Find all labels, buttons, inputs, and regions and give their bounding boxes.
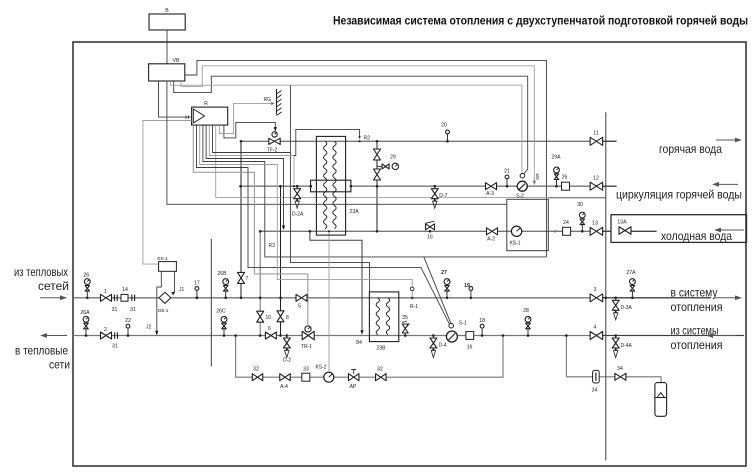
svg-text:TR-1: TR-1 [301, 344, 312, 350]
wire d7 R to S-1 slant 2 [197, 125, 450, 325]
wire R2 sensor to controller [294, 129, 360, 155]
control valve TR-1 [302, 331, 314, 340]
valve 32 b [376, 374, 387, 381]
svg-text:29A: 29A [551, 155, 561, 161]
sensor 20 [446, 140, 449, 143]
svg-text:5: 5 [298, 304, 301, 310]
svg-text:D-2: D-2 [283, 358, 291, 364]
wire w2 VB to SR sensor arrow [181, 66, 534, 182]
svg-text:холодная вода: холодная вода [661, 229, 732, 243]
pipe: valve 8 branch x280.5 [280, 186, 282, 335]
svg-text:24: 24 [563, 220, 569, 226]
svg-text:A-3: A-3 [486, 191, 494, 197]
svg-text:10: 10 [266, 315, 272, 321]
valve 13A [619, 227, 631, 235]
sensor 21 [506, 185, 509, 188]
pipe: return black segment right of valve 4 [603, 335, 744, 337]
wire w1 VB to S-1 line [185, 60, 547, 257]
gauge 30 [581, 230, 584, 233]
svg-text:KS-1: KS-1 [509, 241, 520, 247]
pipe: 23A bottom outlet to return (node 84) [310, 231, 362, 331]
boundary divider line x211 [210, 239, 212, 366]
svg-text:D-4A: D-4A [621, 343, 633, 349]
pipe: right riser x605.8 [605, 112, 607, 460]
svg-text:в систему: в систему [671, 286, 718, 300]
flange pair 31 c [114, 332, 116, 339]
svg-text:2: 2 [104, 327, 107, 333]
flow arrow circulation [718, 183, 738, 185]
pipe: circulation line left segment [241, 185, 311, 187]
pipe: cold black segment inside box [631, 230, 656, 232]
valve A-2 [487, 228, 498, 235]
heat exchanger 23B coil 2 [386, 298, 389, 335]
svg-text:17: 17 [194, 280, 200, 286]
pipe: hot water black segment right of valve 11 [603, 140, 617, 142]
svg-text:VB: VB [173, 58, 180, 64]
filter 34 [593, 370, 600, 383]
svg-text:29: 29 [390, 155, 396, 161]
valve 34 [615, 373, 626, 380]
svg-text:Db-1: Db-1 [158, 308, 169, 314]
svg-text:13A: 13A [617, 220, 627, 226]
svg-text:R-1: R-1 [410, 304, 418, 310]
flow arrow cold water [720, 229, 744, 231]
wire R to TF-2 actuator [224, 122, 275, 137]
wire KS-2 sensing line [328, 231, 330, 371]
heat exchanger 23A coil 2 [333, 141, 336, 228]
pipe: heating supply line [73, 297, 711, 299]
sensor R-1 [411, 297, 414, 300]
valve 1 [101, 294, 112, 301]
wire d8 R to sensor R-1 [200, 125, 413, 287]
svg-text:S-2: S-2 [516, 194, 524, 200]
valve 2 [101, 332, 112, 339]
sensor 18 [481, 334, 484, 337]
gauge 27A [631, 297, 634, 300]
svg-text:23B: 23B [376, 346, 386, 352]
svg-text:B: B [165, 8, 169, 14]
wire branch VB-w4 down to controller R [289, 85, 291, 152]
svg-text:J1: J1 [179, 287, 185, 293]
pump S-1 [451, 334, 454, 337]
pipe: circulation black segment right of valve 12 [603, 185, 617, 187]
drain D-4A [614, 334, 617, 337]
svg-text:SR: SR [535, 173, 541, 180]
svg-text:сети: сети [49, 360, 70, 372]
heat exchanger 23A middle header [311, 180, 351, 192]
elevator Db-1 diamond [159, 292, 171, 303]
device box 26 on circulation [562, 182, 570, 190]
device box 24 [563, 227, 571, 235]
svg-text:D-3A: D-3A [621, 305, 633, 311]
flow arrow into system [40, 297, 61, 299]
svg-text:16: 16 [467, 345, 473, 351]
svg-text:31: 31 [112, 344, 118, 350]
flow arrow hot water [716, 139, 736, 141]
svg-text:27A: 27A [626, 270, 636, 276]
valve 10 [257, 311, 264, 322]
svg-text:84: 84 [356, 340, 362, 346]
valve 6 on return [265, 332, 276, 339]
device box 33 [302, 373, 310, 381]
pipe: heating return line [73, 335, 744, 337]
valve 4 [590, 332, 603, 340]
wire VB down to KS-1 box (y=204) [167, 81, 507, 204]
safety valve 35 [404, 334, 407, 337]
expansion tank [655, 383, 667, 417]
drain D-3A [614, 297, 617, 300]
flange pair 31 b [131, 295, 133, 302]
svg-text:26: 26 [83, 272, 89, 278]
wire w4 VB to pump S-2 straight [170, 81, 522, 173]
valve A-3 [486, 183, 497, 190]
svg-text:23A: 23A [350, 209, 360, 215]
svg-text:сетей: сетей [38, 281, 69, 293]
svg-text:27: 27 [441, 270, 447, 276]
svg-text:D-4: D-4 [439, 343, 447, 349]
pipe: TF-2 riser x241 with valve 7 [240, 141, 242, 297]
svg-text:KS-2: KS-2 [315, 365, 326, 371]
wire d1 R to riser line (gray) [216, 125, 549, 198]
svg-text:30: 30 [577, 202, 583, 208]
svg-text:28: 28 [523, 308, 529, 314]
pipe: cold black segment right of valve 13 [603, 230, 611, 232]
wire VB to R input [159, 81, 192, 117]
sensor 22 [127, 334, 130, 337]
valve 11 [590, 137, 603, 145]
svg-text:AP: AP [350, 384, 357, 390]
drain D-7 [434, 185, 437, 188]
elevator actuator box SS-1 [159, 262, 177, 272]
svg-text:D-7: D-7 [439, 193, 447, 199]
heat exchanger 23A coil 1 [324, 141, 327, 228]
check valve 16 on cold line [426, 224, 435, 230]
outdoor sensor RG on wall [219, 103, 271, 133]
mud filter 14 [121, 294, 128, 301]
sensor 17 [196, 297, 199, 300]
valve 5 on supply [296, 294, 307, 301]
valve 7 [238, 272, 245, 283]
valve 8 [277, 311, 284, 322]
pump KS-2 [324, 372, 334, 382]
svg-text:31: 31 [130, 307, 136, 313]
valve 3 [590, 294, 603, 302]
gauge 28 [527, 334, 530, 337]
svg-text:14: 14 [122, 287, 128, 293]
wire d6 R to valve TR-1 actuator [193, 125, 307, 326]
svg-text:D-2A: D-2A [292, 212, 304, 218]
gauge 26B [224, 297, 227, 300]
svg-text:R3: R3 [269, 243, 276, 249]
pump S-2 [521, 185, 524, 188]
wire B to VB [166, 30, 168, 64]
svg-text:3: 3 [594, 287, 597, 293]
gauge 26C [223, 334, 226, 337]
wire: riser connection to KS-1 box top [548, 197, 606, 199]
svg-text:отопления: отопления [671, 300, 723, 314]
control valve TF-2 [269, 138, 280, 144]
wire d3 R to circulation line sensor [209, 125, 294, 184]
valve A-4 [280, 374, 291, 381]
svg-text:R2: R2 [364, 136, 371, 142]
svg-text:S-1: S-1 [459, 321, 467, 327]
box B [149, 14, 185, 30]
gauge 26A [85, 334, 88, 337]
svg-text:A-4: A-4 [280, 384, 288, 390]
svg-text:26C: 26C [216, 309, 226, 315]
svg-text:34: 34 [592, 388, 598, 394]
DHW tie valves and gauge 29 [374, 149, 381, 160]
drain D-4 [432, 334, 435, 337]
svg-text:1: 1 [104, 289, 107, 295]
svg-text:отопления: отопления [671, 338, 723, 352]
device box 16 on return [466, 332, 474, 340]
svg-text:RG: RG [264, 97, 272, 103]
wire d5 R via node R3 to S-1 slant and w1 [203, 125, 547, 257]
svg-text:циркуляция горячей воды: циркуляция горячей воды [616, 188, 742, 202]
valve 13 [590, 227, 603, 235]
heat exchanger 23A shell [316, 136, 345, 235]
safety valve AP [348, 374, 359, 381]
controller R input triangle [193, 109, 204, 123]
svg-text:TF-2: TF-2 [267, 148, 278, 154]
svg-text:12: 12 [593, 176, 599, 182]
svg-text:11: 11 [593, 131, 598, 137]
wire w3 VB to pump S-2 [174, 76, 528, 174]
wire d2 R to 23B exchanger [213, 125, 370, 292]
svg-text:20: 20 [441, 123, 447, 129]
wire d5 slant branch to pump S-1 motor [424, 257, 451, 324]
svg-text:21: 21 [504, 169, 510, 175]
svg-text:35: 35 [402, 315, 408, 321]
pipe: cold water line [260, 230, 611, 232]
gauge 26 [86, 297, 89, 300]
svg-text:18: 18 [479, 318, 485, 324]
flange pair 31 a [113, 295, 115, 302]
svg-text:19: 19 [464, 283, 470, 289]
svg-text:4: 4 [594, 325, 597, 331]
svg-text:из тепловых: из тепловых [14, 267, 68, 279]
svg-text:32: 32 [377, 367, 383, 373]
svg-text:A-2: A-2 [487, 237, 495, 243]
svg-text:22: 22 [125, 318, 131, 324]
controller R box [192, 107, 228, 125]
pipe: DHW tie riser x377 [376, 141, 378, 231]
svg-text:34: 34 [617, 366, 623, 372]
svg-text:16: 16 [427, 235, 433, 241]
pipe: hot water line [241, 140, 617, 142]
gauge KS-1 [511, 226, 521, 236]
drain D-2A [296, 185, 299, 188]
svg-text:8: 8 [286, 315, 289, 321]
heat exchanger 23B coil 1 [376, 298, 379, 335]
svg-text:в тепловые: в тепловые [15, 346, 68, 358]
valve 32 a [252, 374, 263, 381]
pipe: supply black segment right of valve 3 [603, 297, 711, 299]
sensor 19 [470, 297, 473, 300]
svg-text:26: 26 [562, 175, 568, 181]
cold water box [611, 215, 747, 243]
instrument box around KS-1 [507, 199, 549, 250]
svg-text:26B: 26B [217, 271, 227, 277]
svg-text:SS-1: SS-1 [157, 256, 168, 262]
valve 12 [590, 182, 603, 190]
pipe: bypass line with pumps [236, 336, 503, 378]
pipe: circulation line right segment [351, 185, 617, 187]
svg-text:R: R [204, 101, 208, 107]
gauge 27 [446, 297, 449, 300]
svg-text:горячая вода: горячая вода [659, 142, 722, 156]
svg-text:6: 6 [268, 326, 271, 332]
svg-text:J2: J2 [146, 325, 152, 331]
pipe: cold water line inside box [631, 230, 656, 232]
elevator rod lines [157, 271, 162, 287]
svg-text:13: 13 [592, 221, 598, 227]
svg-text:26A: 26A [80, 310, 90, 316]
flow arrow to heating system [714, 297, 736, 299]
heat exchanger 23B shell [369, 292, 398, 342]
svg-text:33: 33 [303, 367, 309, 373]
flow arrow from heating system [712, 335, 736, 337]
svg-text:7: 7 [246, 276, 249, 282]
svg-text:Независимая система отопления: Независимая система отопления с двухступ… [333, 15, 748, 28]
pipe: valve 10 branch x260 [259, 231, 261, 335]
gauge 29A [555, 185, 558, 188]
pipe: makeup line to expansion tank [566, 336, 661, 383]
wire R to SS-1 (gray, left column) [143, 121, 192, 265]
box VB [149, 64, 185, 81]
drain D-2 [286, 334, 289, 337]
wire d4 R to cold line sensor arrow [206, 125, 283, 226]
svg-text:32: 32 [253, 367, 259, 373]
flow arrow out [46, 335, 67, 337]
svg-text:31: 31 [112, 307, 118, 313]
